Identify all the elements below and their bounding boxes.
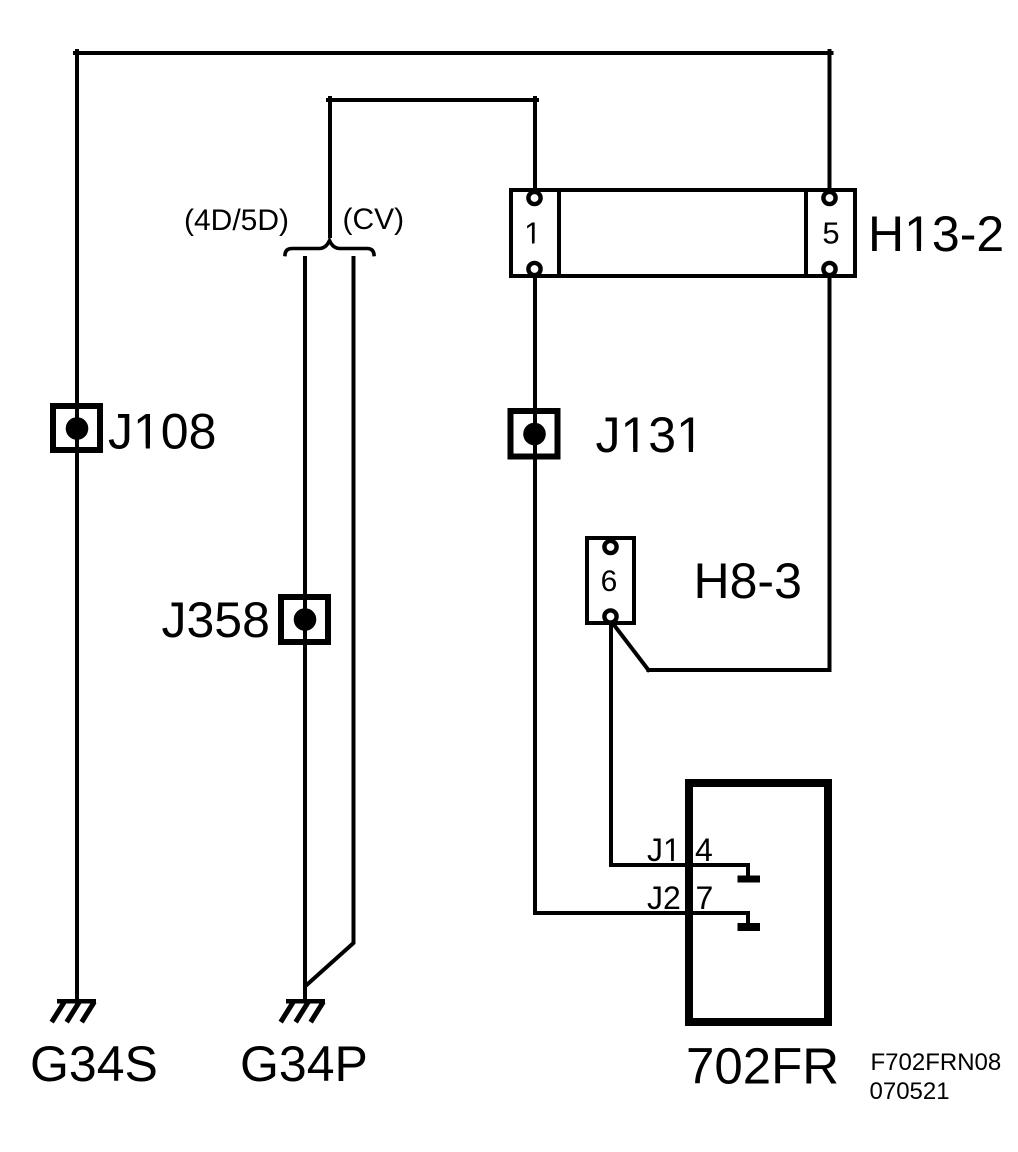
H13-2 pin 1 top circle [528,192,540,204]
H13-2 pin number 1 [524,216,541,251]
702FR pin label J1 [647,832,681,868]
svg-text:1: 1 [524,216,541,251]
junction J358 dot [294,608,317,631]
wire left vertical (G34S branch) [75,51,79,999]
702FR pin 7 bar [738,923,761,931]
702FR pin 4 bar [738,876,761,883]
wire loop left vertical to brace [328,98,332,236]
svg-text:(CV): (CV) [343,203,405,236]
H13-2 pin 5 bottom circle [823,263,835,275]
svg-text:J358: J358 [162,592,270,648]
H13-2 right divider [804,190,808,276]
svg-text:7: 7 [696,880,714,916]
junction J108 dot [66,417,89,440]
relay 702FR box [689,783,828,1022]
wire right vertical to H13-2 pin 5 [828,51,832,188]
wire J2 horizontal into 702FR [535,911,748,915]
wire 4D/5D vertical [303,258,307,999]
svg-text:6: 6 [601,565,618,598]
svg-text:702FR: 702FR [686,1038,839,1095]
junction J358 square [281,597,328,642]
svg-text:J108: J108 [108,404,216,460]
wire diagonal to H8-3 pin 6 [611,621,648,670]
svg-text:5: 5 [822,216,839,251]
H8-3 pin 6 bottom circle [604,610,616,622]
connector H8-3 box [587,538,634,623]
702FR pin 7 stub [746,913,750,924]
wire H13-2 pin1 down through J131 to J2 row [533,278,537,913]
label J131 [596,407,704,463]
H13-2 pin 1 bottom circle [528,263,540,275]
H13-2 left divider [557,190,561,276]
svg-text:J131: J131 [596,407,704,463]
wire loop right vertical to H13-2 pin 1 [533,98,537,188]
svg-text:070521: 070521 [870,1078,950,1105]
svg-text:J2: J2 [647,880,681,916]
ground G34P symbol [282,999,325,1020]
svg-text:G34S: G34S [30,1036,158,1092]
label J108 [108,404,216,460]
svg-text:H13-2: H13-2 [868,206,1004,262]
wire loop horizontal [328,98,537,102]
svg-text:G34P: G34P [240,1036,368,1092]
label H13-2 [868,206,1004,262]
svg-text:(4D/5D): (4D/5D) [184,204,289,237]
svg-text:4: 4 [695,832,713,868]
brace [285,241,374,255]
ground G34S symbol [53,999,96,1020]
svg-text:J1: J1 [647,832,681,868]
wire H13-2 pin5 down [828,278,832,670]
wire horizontal to H8-3 [648,668,829,672]
junction J131 square [511,411,558,457]
wire H8-3 pin6 down to J1 row [609,621,613,865]
wire CV vertical with diagonal to ground [306,258,354,986]
H13-2 pin 5 top circle [823,192,835,204]
H8-3 top circle [604,541,616,553]
svg-text:F702FRN08: F702FRN08 [871,1049,1002,1076]
junction J108 square [53,406,100,450]
junction J131 dot [523,423,546,446]
wire J1 horizontal into 702FR [611,863,748,867]
svg-text:H8-3: H8-3 [694,553,802,609]
wire top horizontal bus [75,51,832,55]
connector H13-2 box [511,190,855,276]
702FR pin 4 stub [746,865,750,876]
